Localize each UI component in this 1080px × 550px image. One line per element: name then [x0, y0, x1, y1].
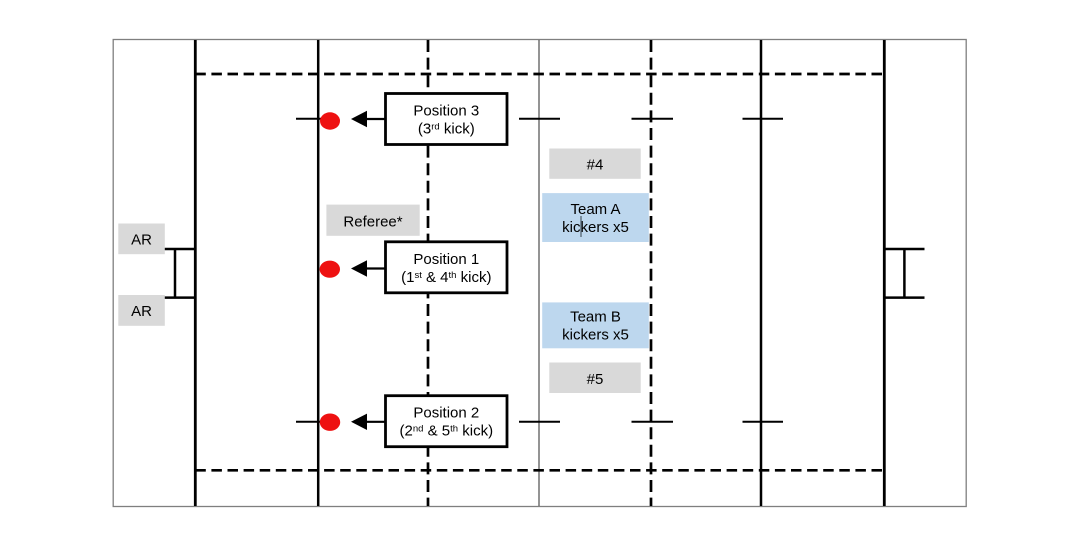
svg-text:#4: #4 [587, 157, 604, 174]
goal line right [883, 40, 886, 506]
22m line right [760, 40, 763, 506]
svg-text:kickers x5: kickers x5 [562, 327, 629, 344]
hash mark halfway top row [519, 118, 560, 120]
svg-text:Position 1: Position 1 [413, 251, 479, 268]
arrow to position 2 [351, 414, 386, 430]
svg-text:Position 3: Position 3 [413, 103, 479, 120]
#5 box [549, 363, 640, 394]
bottom dashed 5m line [195, 469, 884, 472]
svg-text:AR: AR [131, 232, 152, 249]
Position 1 label box [386, 242, 508, 293]
svg-text:AR: AR [131, 303, 152, 320]
hash mark 22m-left bottom row [296, 421, 339, 423]
arrow to position 3 [351, 111, 386, 127]
#4 box [549, 149, 640, 179]
svg-text:#5: #5 [587, 371, 604, 388]
Team B kickers box [542, 302, 649, 348]
10m dashed line right [650, 40, 653, 506]
hash mark 10m-right top row [632, 118, 674, 120]
svg-text:Referee*: Referee* [343, 214, 402, 231]
hash mark 22m-left top row [296, 118, 339, 120]
arrow to position 1 [351, 260, 386, 276]
AR box lower [118, 295, 165, 326]
Referee box [326, 205, 419, 236]
AR box upper [118, 224, 165, 255]
svg-text:Team A: Team A [570, 201, 620, 218]
field border [113, 40, 966, 507]
halfway line [538, 40, 540, 506]
kick spot 1 red dot [320, 261, 340, 278]
hash mark 22m-right top row [743, 118, 784, 120]
kick spot 2 red dot [320, 414, 340, 431]
hash mark 22m-right bottom row [743, 421, 784, 423]
10m dashed line left [427, 40, 430, 506]
goal line left [194, 40, 197, 506]
hash mark halfway bottom row [519, 421, 560, 423]
Position 3 label box [386, 94, 508, 145]
svg-text:Team B: Team B [570, 309, 621, 326]
svg-text:(3rd kick): (3rd kick) [418, 121, 475, 138]
right goal posts [884, 249, 924, 298]
Team A kickers box [542, 193, 649, 242]
svg-text:Position 2: Position 2 [413, 405, 479, 422]
Position 2 label box [386, 396, 508, 447]
top dashed 5m line [195, 73, 884, 76]
kick spot 3 red dot [320, 112, 340, 129]
22m line left [317, 40, 320, 506]
svg-text:kickers x5: kickers x5 [562, 219, 629, 236]
hash mark 10m-right bottom row [632, 421, 674, 423]
left goal posts [156, 249, 195, 298]
